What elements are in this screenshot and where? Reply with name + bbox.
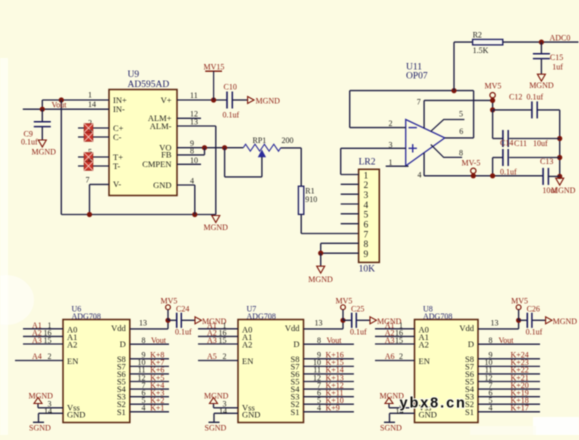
power MGND at U6 Vss <box>29 391 54 408</box>
C13 value 10uf <box>542 186 557 195</box>
svg-text:SGND: SGND <box>29 424 51 433</box>
svg-text:D: D <box>293 339 299 349</box>
no-connect X on C+ <box>84 124 93 133</box>
U9 pin 10 CMPEN stub <box>177 156 201 165</box>
svg-text:K+1: K+1 <box>150 404 164 413</box>
svg-text:4: 4 <box>190 177 194 186</box>
U6 pin 12 S5 wire net K+5 <box>130 373 169 382</box>
capacitor C10 plates <box>227 92 232 109</box>
capacitor C24 plates <box>177 313 182 328</box>
svg-text:C25: C25 <box>351 305 364 314</box>
svg-text:C12: C12 <box>509 93 522 102</box>
capacitor C25 wires <box>343 319 370 321</box>
U9 pin 4 GND wire <box>177 177 195 215</box>
LR2 pin 9 wire <box>321 252 359 254</box>
U8 pin 12 S5 wire net K+21 <box>478 373 540 382</box>
svg-text:4: 4 <box>317 404 321 413</box>
svg-text:LR2: LR2 <box>359 158 376 168</box>
U6 designator <box>72 305 82 314</box>
U11 pin 7 V+ wire <box>417 98 493 129</box>
svg-text:Vout: Vout <box>499 336 515 345</box>
svg-text:MGND: MGND <box>308 275 333 284</box>
R1 value 910 <box>305 195 317 204</box>
svg-text:7: 7 <box>417 98 421 107</box>
capacitor C9 wires <box>41 109 43 140</box>
svg-text:EN: EN <box>242 356 253 366</box>
svg-text:7: 7 <box>86 176 90 185</box>
U6 part value ADG708 <box>72 312 101 321</box>
U8 pin 9 S8 wire net K+24 <box>478 351 540 360</box>
svg-text:EN: EN <box>419 356 430 366</box>
capacitor C13 right wire <box>548 175 559 177</box>
svg-text:4: 4 <box>418 171 422 180</box>
no-connect X on T+ <box>84 153 93 162</box>
multiplexer U6 ADG708 body <box>63 320 130 423</box>
power MV5 above U7 <box>336 296 353 320</box>
U11 pin 6 output wire <box>445 127 474 138</box>
svg-text:5: 5 <box>459 109 463 118</box>
C10 value 0.1uf <box>223 110 240 119</box>
svg-text:4: 4 <box>142 404 146 413</box>
capacitor C14 wires <box>493 158 560 176</box>
RP1 designator <box>253 136 267 145</box>
svg-text:C14: C14 <box>500 139 513 148</box>
wire R1 to LR2 pin 7 <box>301 214 358 233</box>
svg-text:MGND: MGND <box>32 148 57 157</box>
svg-text:MGND: MGND <box>553 317 578 326</box>
capacitor C26 wires <box>519 319 546 321</box>
svg-text:2: 2 <box>364 181 369 191</box>
U7 pin 1 wire net A1 <box>198 321 238 330</box>
power MV15 symbol <box>204 63 225 101</box>
LR2 designator <box>359 158 376 168</box>
capacitor C9 plates <box>34 122 51 127</box>
wire R2 right to ADC0 <box>503 41 579 43</box>
junction wiper joins VO <box>222 145 227 150</box>
junction pin7 joins MV5 <box>490 98 495 103</box>
U11 pin 2 wire <box>350 119 406 128</box>
U9 pin 1 IN+ wire <box>42 100 109 109</box>
U6 pin 10 S7 wire net K+7 <box>130 358 169 367</box>
capacitor C12 wires <box>493 109 560 111</box>
U7 pin 4 S1 wire net K+9 <box>304 404 354 413</box>
U6 pin 7 S4 wire net K+4 <box>130 381 169 390</box>
power MV5 near U11 <box>485 81 502 98</box>
svg-text:1.5K: 1.5K <box>473 46 489 55</box>
resistor R2 body <box>473 39 503 45</box>
svg-text:MGND: MGND <box>551 186 576 195</box>
wire C10 to MGND port <box>232 99 247 101</box>
svg-text:13: 13 <box>139 319 147 328</box>
svg-text:0.1uf: 0.1uf <box>526 327 543 336</box>
svg-text:Vdd: Vdd <box>459 323 474 333</box>
U9 pin 7 V- wire <box>86 176 110 215</box>
junction C15 tap <box>539 40 544 45</box>
svg-text:C11: C11 <box>514 139 527 148</box>
C25 value 0.1uf <box>350 327 367 336</box>
svg-text:ybx8.cn: ybx8.cn <box>400 396 467 412</box>
ground MGND below C9 <box>32 140 57 157</box>
svg-text:A2: A2 <box>242 340 252 350</box>
svg-text:MGND: MGND <box>529 81 554 90</box>
U7 designator <box>247 305 257 314</box>
U6 pin 1 wire net A1 <box>23 321 63 330</box>
junction MV15 on V+ wire <box>211 97 216 102</box>
junction C14 row rail <box>557 155 562 160</box>
svg-text:MV5: MV5 <box>485 81 502 90</box>
U8 pin 14 GND wire <box>390 407 415 416</box>
junction GND on rail <box>192 212 197 217</box>
svg-text:MGND: MGND <box>204 391 229 400</box>
power MV5 above U6 <box>161 296 178 320</box>
net label ADC0 <box>550 33 571 42</box>
C26 value 0.1uf <box>526 327 543 336</box>
svg-text:5: 5 <box>364 211 369 221</box>
C26 designator <box>527 305 540 314</box>
U8 pin 8 D wire net Vout <box>478 336 540 345</box>
wire RP1 wiper to VO net <box>225 148 262 177</box>
capacitor C25 plates <box>352 313 357 328</box>
U8 designator <box>423 305 433 314</box>
power MGND at U7 Vss <box>204 391 229 408</box>
wire RP1 right to R1 <box>281 148 302 186</box>
U6 pin 15 wire net A3 <box>23 336 63 345</box>
svg-text:U9: U9 <box>128 70 140 80</box>
R2 value 1.5K <box>473 46 489 55</box>
svg-text:8: 8 <box>364 240 369 250</box>
svg-text:MV5: MV5 <box>336 296 353 305</box>
svg-text:15: 15 <box>44 336 52 345</box>
U11 pin 4 V- wire <box>418 153 425 180</box>
LR2 pin 1 wire to opamp + <box>341 148 359 174</box>
U8 pin 13 Vdd wire <box>478 319 519 329</box>
capacitor C15 wires <box>540 42 542 74</box>
wire R2 left lead <box>454 42 473 91</box>
svg-text:MV-5: MV-5 <box>462 158 481 167</box>
LR2 pin numbers 1-9 <box>364 171 369 260</box>
op-amp U11 triangle <box>406 120 445 166</box>
svg-text:A2: A2 <box>67 340 77 350</box>
port MGND right of C10 <box>248 96 281 105</box>
U6 pin 4 S1 wire net K+1 <box>130 404 169 413</box>
junction V- on rail <box>87 212 92 217</box>
U9 pin 11 V+ wire <box>177 91 227 100</box>
U7 pin 3 Vss wire <box>214 399 239 408</box>
capacitor C13 plates <box>543 168 548 185</box>
svg-text:8: 8 <box>489 336 493 345</box>
junction R2 tap <box>451 88 456 93</box>
junction MV5 C25 <box>340 318 345 323</box>
C11 value 10uf <box>533 139 548 148</box>
svg-text:9: 9 <box>364 250 369 260</box>
svg-text:3: 3 <box>364 191 369 201</box>
svg-text:ADG708: ADG708 <box>72 312 101 321</box>
U7 pin 5 S2 wire net K+10 <box>304 396 354 405</box>
multiplexer U8 ADG708 body <box>415 320 479 423</box>
C24 designator <box>176 305 189 314</box>
svg-text:0.1uf: 0.1uf <box>175 327 192 336</box>
svg-text:MV15: MV15 <box>204 63 225 72</box>
svg-text:11: 11 <box>190 91 198 100</box>
U6 pin 3 Vss wire <box>38 399 63 408</box>
U9 pin 14 IN- wire <box>23 108 109 110</box>
svg-text:15: 15 <box>219 336 227 345</box>
junction MV5 C24 <box>165 318 170 323</box>
feedback wire output to pin 2 <box>350 91 474 138</box>
svg-text:T-: T- <box>113 161 120 171</box>
C13 designator <box>540 157 553 166</box>
U9 pin names <box>113 95 172 190</box>
svg-text:10uf: 10uf <box>533 139 548 148</box>
U7 pin 13 Vdd wire <box>304 319 344 329</box>
LR2 pin 2-6 stubs <box>341 184 359 223</box>
junction C13 row rail <box>557 174 562 179</box>
U8 pin names <box>419 323 475 419</box>
R2 designator <box>473 30 482 39</box>
U6 pin 13 Vdd wire <box>130 319 168 329</box>
U7 pin 12 S5 wire net K+13 <box>304 373 354 382</box>
no-connect X on C- <box>84 133 93 142</box>
svg-text:200: 200 <box>282 136 294 145</box>
svg-text:C-: C- <box>113 132 122 142</box>
svg-text:A3: A3 <box>32 336 42 345</box>
U8 pin 5 S2 wire net K+18 <box>478 396 540 405</box>
svg-text:SGND: SGND <box>380 424 402 433</box>
U6 pin names <box>67 323 127 419</box>
svg-text:C26: C26 <box>527 305 540 314</box>
C24 value 0.1uf <box>175 327 192 336</box>
svg-text:ADG708: ADG708 <box>423 312 452 321</box>
C14 value 0.1uf <box>500 168 517 177</box>
port MGND right of C24 <box>195 317 227 326</box>
junction on IN- wire to C9 <box>40 107 45 112</box>
ground MGND bottom right <box>551 178 576 195</box>
U7 pin 10 S7 wire net K+15 <box>304 358 354 367</box>
U8 pin 10 S7 wire net K+23 <box>478 358 540 367</box>
node Vout junction on IN+ wire <box>59 97 64 102</box>
capacitor C14 plates <box>503 149 508 166</box>
svg-text:SGND: SGND <box>205 424 227 433</box>
svg-text:RP1: RP1 <box>253 136 267 145</box>
C14 designator <box>500 139 513 148</box>
U6 pin 16 wire net A2 <box>23 328 63 337</box>
svg-text:IN-: IN- <box>113 104 125 114</box>
wire IN+ down to ground rail <box>60 100 62 215</box>
LR2 value 10K <box>359 265 376 275</box>
U11 pin 1 stub <box>386 158 409 167</box>
U11 negative supply rail <box>424 175 543 177</box>
U7 pin names <box>242 323 300 419</box>
C11 designator <box>514 139 527 148</box>
svg-text:8: 8 <box>317 336 321 345</box>
U7 pin 6 S3 wire net K+11 <box>304 388 354 397</box>
U9 pin 5 T+ stub <box>78 148 109 158</box>
svg-text:K+17: K+17 <box>511 404 529 413</box>
junction C12 row <box>490 107 495 112</box>
svg-text:10: 10 <box>190 156 198 165</box>
U8 part value ADG708 <box>423 312 452 321</box>
svg-text:0.1uf: 0.1uf <box>223 110 240 119</box>
junction MV-5 <box>471 173 476 178</box>
svg-text:8: 8 <box>142 336 146 345</box>
svg-text:Vout: Vout <box>327 336 343 345</box>
svg-text:7: 7 <box>364 230 369 240</box>
U9 part value AD595AD <box>128 80 170 90</box>
svg-text:MGND: MGND <box>204 223 229 232</box>
junction C11 row rail <box>557 136 562 141</box>
U7 pin 2 EN wire net A5 <box>198 352 238 361</box>
power MV5 above U8 <box>511 296 528 320</box>
op-amp thermocouple amp chip U9 AD595AD body <box>109 90 177 196</box>
svg-text:ALM-: ALM- <box>150 121 172 131</box>
svg-text:2: 2 <box>223 352 227 361</box>
U11 part value OP07 <box>406 72 428 82</box>
svg-text:14: 14 <box>219 407 227 416</box>
U7 pin 8 D wire net Vout <box>304 336 354 345</box>
U11 pin 5 stub <box>431 109 465 131</box>
svg-text:13: 13 <box>491 319 499 328</box>
junction LR2 pins 8-9 <box>318 251 323 256</box>
U8 pin 16 wire net A2 <box>375 328 415 337</box>
potentiometer RP1 zigzag <box>243 144 281 151</box>
svg-text:K+9: K+9 <box>326 404 340 413</box>
svg-text:A4: A4 <box>32 352 42 361</box>
svg-text:14: 14 <box>88 100 96 109</box>
svg-text:C13: C13 <box>540 157 553 166</box>
U9 pin 8 FB wire <box>177 147 205 156</box>
svg-text:6: 6 <box>459 127 463 136</box>
U6 pin 9 S8 wire net K+8 <box>130 351 169 360</box>
U7 part value ADG708 <box>247 312 276 321</box>
U11 pin 3 wire <box>341 141 406 150</box>
C12 designator <box>509 93 522 102</box>
svg-text:Vdd: Vdd <box>111 323 126 333</box>
svg-text:4: 4 <box>364 201 369 211</box>
U8 pin 11 S6 wire net K+22 <box>478 366 540 375</box>
capacitor C11 wires <box>493 110 560 139</box>
ground MGND under U9 rail <box>204 216 229 233</box>
svg-text:2: 2 <box>48 352 52 361</box>
RP1 wiper arrow <box>259 151 266 177</box>
U11 pin 8 stub <box>431 145 463 158</box>
svg-text:S1: S1 <box>117 407 126 417</box>
U9 pin 1 number <box>88 91 92 100</box>
MGND right rail <box>559 110 561 176</box>
ground MGND under LR2 <box>308 253 333 284</box>
svg-text:13: 13 <box>315 319 323 328</box>
C9 designator <box>24 130 33 139</box>
svg-text:R2: R2 <box>473 30 482 39</box>
net label Vout <box>52 101 68 110</box>
capacitor C24 wires <box>168 319 195 321</box>
U9 pin 14 number <box>88 100 96 109</box>
U7 pin 16 wire net A2 <box>198 328 238 337</box>
C9 value 0.1uf <box>21 137 38 146</box>
resistor R1 body <box>298 186 303 214</box>
U8 pin 2 EN wire net A6 <box>375 352 415 361</box>
U8 pin 15 wire net A3 <box>375 336 415 345</box>
ground SGND at U7 <box>205 413 227 432</box>
svg-text:MGND: MGND <box>29 391 54 400</box>
U6 pin 2 EN wire net A4 <box>15 352 63 361</box>
multiplexer U7 ADG708 body <box>238 320 304 423</box>
no-connect X on T- <box>84 162 93 171</box>
svg-text:C10: C10 <box>224 83 237 92</box>
svg-text:0.1uf: 0.1uf <box>527 93 544 102</box>
svg-text:0.1uf: 0.1uf <box>350 327 367 336</box>
svg-text:1uf: 1uf <box>552 63 563 72</box>
svg-text:AD595AD: AD595AD <box>128 80 170 90</box>
U9 pin 9 VO wire <box>177 139 243 148</box>
power MGND at U8 Vss <box>380 391 405 408</box>
C10 designator <box>224 83 237 92</box>
wire MV5 down <box>492 98 494 110</box>
svg-text:CMPEN: CMPEN <box>142 159 171 169</box>
ground MGND below C15 <box>529 74 554 90</box>
svg-text:D: D <box>120 339 126 349</box>
svg-text:V-: V- <box>113 179 121 189</box>
svg-text:2: 2 <box>389 119 393 128</box>
capacitor C11 plates <box>503 130 508 147</box>
svg-text:MGND: MGND <box>256 96 281 105</box>
svg-text:14: 14 <box>44 407 52 416</box>
svg-text:A5: A5 <box>207 352 217 361</box>
LR2 pin 8 wire <box>321 243 359 253</box>
svg-text:MV5: MV5 <box>161 296 178 305</box>
svg-text:Vdd: Vdd <box>285 323 300 333</box>
svg-text:GND: GND <box>67 410 85 420</box>
U9 designator <box>128 70 140 80</box>
svg-text:13: 13 <box>190 118 198 127</box>
U11 designator <box>406 63 422 73</box>
svg-text:S1: S1 <box>291 407 300 417</box>
port MGND right of C25 <box>370 317 402 326</box>
svg-text:EN: EN <box>67 356 78 366</box>
U9 ground rail wire <box>61 214 216 216</box>
U9 pin 6 T- stub <box>78 157 109 166</box>
capacitor C15 plates <box>533 54 550 59</box>
capacitor C12 plates <box>532 101 537 118</box>
power MV-5 symbol <box>462 158 481 173</box>
C15 value 1uf <box>552 63 563 72</box>
U8 pin 1 wire net A1 <box>375 321 415 330</box>
U7 pin 11 S6 wire net K+14 <box>304 366 354 375</box>
U7 pin 7 S4 wire net K+12 <box>304 381 354 390</box>
ground SGND at U8 <box>380 413 402 432</box>
svg-text:0.1uf: 0.1uf <box>21 137 38 146</box>
svg-text:C15: C15 <box>550 53 563 62</box>
U6 pin 14 GND wire <box>39 407 64 416</box>
watermark ybx8.cn <box>400 396 467 412</box>
U6 pin 5 S2 wire net K+2 <box>130 396 169 405</box>
svg-text:A3: A3 <box>207 336 217 345</box>
U8 pin 4 S1 wire net K+17 <box>478 404 540 413</box>
U9 pin 13 ALM- wire <box>177 118 216 215</box>
C15 designator <box>550 53 563 62</box>
svg-text:2: 2 <box>399 352 403 361</box>
svg-text:ADC0: ADC0 <box>550 33 571 42</box>
svg-text:Vout: Vout <box>52 101 68 110</box>
junction C14 branch <box>490 173 495 178</box>
svg-text:D: D <box>468 339 474 349</box>
svg-text:GND: GND <box>153 180 171 190</box>
svg-text:MV5: MV5 <box>511 296 528 305</box>
capacitor C26 plates <box>527 313 532 328</box>
RP1 value 200 <box>282 136 294 145</box>
ground SGND at U6 <box>29 413 51 432</box>
U7 pin 14 GND wire <box>214 407 238 416</box>
R1 designator <box>305 187 314 196</box>
